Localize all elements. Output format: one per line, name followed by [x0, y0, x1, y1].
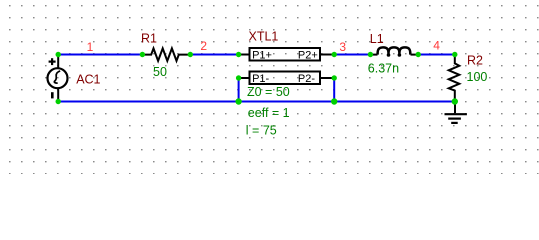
node dot R2 bottom [452, 98, 458, 104]
svg-text:2: 2 [200, 39, 207, 53]
svg-text:eeff = 1: eeff = 1 [248, 106, 290, 120]
ground [445, 102, 467, 123]
svg-text:6.37n: 6.37n [368, 62, 399, 76]
AC source AC1 [48, 55, 68, 102]
junction dot bus right [331, 98, 337, 104]
node dot R1 right [188, 52, 193, 57]
svg-text:R1: R1 [141, 31, 157, 45]
svg-text:P1+: P1+ [252, 49, 272, 61]
svg-text:XTL1: XTL1 [249, 29, 279, 43]
svg-text:P2+: P2+ [298, 49, 318, 61]
transmission line XTL1 box P+ [239, 48, 335, 61]
svg-text:100: 100 [467, 70, 488, 84]
svg-text:L1: L1 [370, 32, 384, 46]
wire node4 L1 to R2 [418, 54, 455, 56]
node dot P1+ [236, 52, 241, 57]
wire node3 XTL1 P2+ to L1 [334, 54, 370, 56]
inductor L1 [370, 47, 418, 54]
svg-text:P1-: P1- [252, 73, 269, 85]
wire node2 R1 to XTL1 P1+ [190, 54, 238, 56]
svg-text:50: 50 [153, 65, 167, 79]
node dot P1- [236, 75, 241, 80]
wire P2- down to bus [333, 78, 335, 102]
node dot R2 top [452, 52, 457, 57]
resistor R1 [142, 48, 190, 61]
svg-text:4: 4 [433, 38, 440, 52]
node dot AC1 bottom [56, 99, 61, 104]
svg-text:1: 1 [87, 40, 94, 54]
svg-text:R2: R2 [467, 53, 483, 67]
svg-text:l = 75: l = 75 [246, 124, 277, 138]
junction dot bus left [235, 98, 241, 104]
wire ground bus [58, 101, 455, 103]
node dot P2+ [332, 52, 337, 57]
node dot L1 left [368, 52, 373, 57]
svg-text:AC1: AC1 [76, 73, 100, 87]
node dot R1 left [140, 52, 145, 57]
svg-text:3: 3 [339, 40, 346, 54]
svg-text:P2-: P2- [298, 73, 315, 85]
svg-text:Z0 = 50: Z0 = 50 [247, 85, 290, 99]
wire P1- down to bus [238, 78, 240, 102]
wire node1 AC1 to R1 [58, 54, 142, 56]
node dot P2- [332, 75, 337, 80]
node dot L1 right [416, 52, 421, 57]
transmission line XTL1 box P- [239, 72, 335, 85]
resistor R2 [449, 55, 460, 102]
node dot AC1 top [56, 52, 61, 57]
